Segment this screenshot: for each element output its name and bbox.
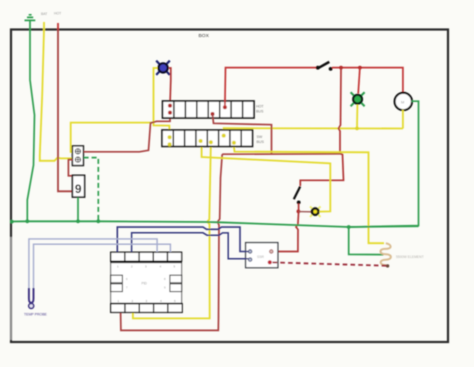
svg-text:5500W ELEMENT: 5500W ELEMENT [396, 255, 424, 259]
svg-text:BOX: BOX [199, 33, 210, 39]
heating element EL1 (coil) [380, 243, 390, 265]
svg-text:SW: SW [257, 135, 263, 139]
wire yellow lamp PL1 to bus area [154, 68, 158, 123]
node ground bus dots [10, 220, 14, 224]
svg-text:SSR: SSR [257, 255, 265, 259]
wire dashed red SSR to element [273, 262, 387, 265]
enclosure box outline [11, 30, 448, 343]
pilot lamp PL2 (green) [351, 92, 365, 106]
ground bus wire [12, 221, 419, 227]
svg-text:BUS: BUS [256, 110, 264, 114]
wire red SW2 to SSR [274, 204, 299, 252]
wire green M1 to ground bus [349, 101, 419, 227]
svg-text:HOT: HOT [256, 105, 264, 109]
node red junction at lamp PL3 [297, 210, 301, 214]
controller PID [111, 252, 183, 312]
breaker CB1 [72, 175, 84, 197]
wire navy PID out1 to SSR [117, 227, 249, 252]
wire maroon TB1 to breaker CB1 [68, 160, 72, 176]
node HOT (red supply stub) [57, 23, 59, 30]
ground [25, 15, 36, 30]
wire yellow M1 bottom drop [402, 110, 404, 129]
svg-text:M: M [401, 99, 404, 104]
wire maroon horizontal feed y154 [222, 153, 341, 155]
temp probe [29, 288, 34, 308]
wire probe lead 2 [34, 244, 171, 290]
wire green TB1 dashed drop to ground bus [84, 158, 99, 222]
switch SW2 [294, 187, 301, 205]
wire green ground feed [27, 30, 34, 222]
wire maroon long drop to PID power [121, 154, 223, 330]
wire yellow horizontal to terminal block [71, 123, 154, 152]
wire red main drop from SW1 junction [300, 68, 343, 186]
svg-text:9: 9 [75, 182, 82, 196]
node hot-bus dots [168, 104, 227, 116]
terminal strip HOT BUS [163, 101, 255, 118]
node BAT (yellow supply stub) [43, 22, 45, 30]
wire red hot bus cell6 up to switch SW1 [225, 68, 317, 107]
pilot lamp PL3 (yellow) [310, 206, 321, 217]
wire yellow bus link to SW bus cell6 [224, 128, 403, 135]
wire maroon hot bus cell5 drop [213, 114, 272, 154]
svg-text:HOT: HOT [54, 12, 61, 16]
ammeter M1 [395, 93, 412, 110]
wire green branch to element [349, 227, 384, 255]
wire yellow SW bus cell7 to element [234, 146, 384, 243]
wire red supply down to breaker [58, 30, 73, 192]
wire green CB1 to ground bus [77, 197, 79, 221]
wire red stub to lamp PL3 [299, 211, 311, 213]
terminal strip SW BUS [162, 130, 253, 146]
wire navy PID out2 to SSR [132, 233, 249, 259]
wire left border fade [10, 237, 12, 340]
terminal block TB1 [72, 146, 83, 166]
svg-text:BAT: BAT [41, 12, 47, 16]
node yellow junction [355, 127, 359, 131]
wire yellow supply down [40, 30, 73, 161]
node sw-bus dots [168, 134, 236, 147]
switch SW1 [316, 62, 333, 71]
svg-text:PID: PID [142, 282, 148, 286]
wire red branch to pilot lamp PL2 [358, 68, 360, 94]
pilot lamp PL1 (blue) [156, 61, 170, 75]
relay SSR [246, 243, 278, 268]
wire yellow PL2 bottom drop [356, 105, 358, 129]
svg-text:BUS: BUS [257, 140, 265, 144]
wire red lamp PL1 to hot bus cell1 [169, 68, 171, 105]
svg-text:TEMP PROBE: TEMP PROBE [24, 312, 48, 316]
wire red SW1 to ammeter M1 [332, 68, 403, 93]
wire yellow SW bus cell5 to PID terminal 2 [133, 146, 211, 318]
wire maroon TB1 to hot bus cell1 [84, 113, 170, 152]
wire probe lead 1 [29, 239, 157, 290]
wire yellow into SW bus cell1 [154, 123, 170, 137]
node junction dots on red feed [339, 66, 343, 70]
wire yellow PL3 via SW bus cell4 [202, 146, 331, 211]
